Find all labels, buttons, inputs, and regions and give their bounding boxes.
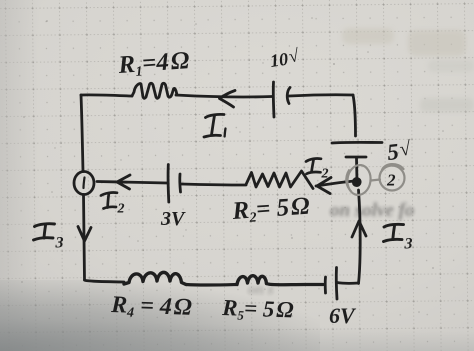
wire 6V to right vertical [337, 281, 359, 285]
wire middle mid segment [181, 184, 246, 185]
battery 10V long plate [272, 82, 276, 117]
node 1 circle [74, 172, 94, 195]
resistor R1 [132, 83, 177, 98]
paper specks [21, 17, 444, 313]
gray annotation: ellipse around node 2 [346, 164, 405, 197]
battery 3V short plate [178, 174, 182, 192]
svg-text:6V: 6V [329, 303, 357, 328]
wire 5V to node 2 [355, 158, 358, 182]
svg-text:R5= 5Ω: R5= 5Ω [221, 295, 294, 325]
wire left vertical upper [81, 95, 83, 172]
circled 2 annotation [380, 166, 405, 191]
battery 6V short plate [324, 277, 327, 293]
wire top mid segment [176, 95, 272, 97]
faint bleed-through text "on solve fo" [248, 200, 414, 298]
svg-text:3V: 3V [160, 208, 186, 230]
gray dash between ellipse and circled 2 [371, 180, 380, 181]
svg-text:2: 2 [117, 202, 125, 217]
wire bottom left corner and segment [85, 280, 125, 282]
arrow I2-right (points left) [317, 178, 331, 194]
wire right vertical lower [359, 190, 361, 284]
dark paper-edge band at bottom [0, 317, 474, 351]
resistor R2 [246, 171, 313, 189]
label I3 left [34, 224, 55, 240]
label I2 left [101, 193, 117, 209]
wire arrow to node 2 [316, 181, 356, 186]
label I2 top [306, 159, 321, 174]
wire top right segment [289, 95, 353, 96]
faint bleed-through smudges top right [342, 28, 474, 112]
wire top-left segment [81, 95, 132, 96]
wire bottom mid segment [186, 283, 236, 287]
arrow I1 (points left) [220, 91, 236, 108]
arrow I3-right (points up) [352, 221, 366, 237]
label I1 [204, 114, 226, 137]
svg-text:on solve fo: on solve fo [330, 200, 414, 221]
label I3 right [384, 224, 404, 241]
node 2 junction dot [354, 179, 360, 185]
svg-text:3: 3 [55, 235, 64, 252]
resistor R5 [237, 276, 267, 285]
battery 10V short plate [287, 88, 290, 104]
svg-text:2: 2 [321, 167, 329, 182]
wire middle from node1 [97, 182, 167, 184]
wire right down to 5V battery [353, 95, 356, 136]
node 1 label "1" tick [84, 178, 85, 189]
battery 5V long plate [332, 141, 382, 144]
battery 6V long plate [335, 268, 339, 300]
svg-text:2: 2 [386, 171, 396, 190]
battery 5V short plate [346, 156, 366, 159]
resistor R4 [124, 272, 186, 284]
wire left vertical lower [84, 195, 85, 281]
arrow I3-left (points down) [78, 227, 91, 242]
wire bottom right segment [267, 284, 324, 285]
svg-text:3: 3 [404, 236, 413, 253]
arrow I2-left (points left) [117, 175, 130, 189]
battery 3V long plate [167, 165, 171, 203]
svg-text:R4 = 4Ω: R4 = 4Ω [110, 292, 193, 323]
